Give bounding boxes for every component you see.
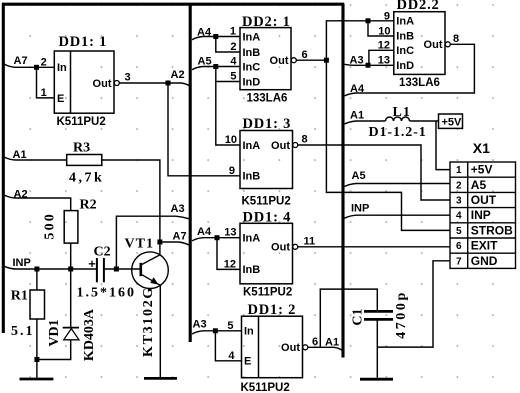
svg-text:DD1: 4: DD1: 4 [243,210,292,226]
svg-text:DD2: 1: DD2: 1 [242,14,291,30]
svg-text:500: 500 [43,212,58,240]
svg-text:InA: InA [243,233,261,245]
svg-text:A4: A4 [350,83,365,95]
svg-text:3: 3 [456,196,462,207]
svg-text:5.1: 5.1 [11,324,35,339]
svg-text:1: 1 [456,165,462,176]
svg-text:InB: InB [396,31,414,43]
svg-text:L1: L1 [393,105,411,120]
svg-text:2: 2 [230,41,236,53]
svg-text:5: 5 [456,226,462,237]
svg-text:10: 10 [378,25,390,37]
svg-text:3: 3 [125,72,131,84]
svg-text:Out: Out [424,39,443,51]
svg-text:InC: InC [243,61,261,73]
svg-text:K511PU2: K511PU2 [57,116,106,128]
svg-text:R1: R1 [11,289,28,304]
svg-text:A2: A2 [171,69,185,81]
svg-text:A2: A2 [14,188,28,200]
svg-text:VT1: VT1 [125,237,154,252]
svg-text:E: E [57,93,64,105]
svg-text:Out: Out [271,140,290,152]
svg-text:A3: A3 [350,55,364,67]
svg-text:C1: C1 [351,308,366,325]
svg-text:12: 12 [378,40,390,52]
svg-text:EXIT: EXIT [471,239,498,253]
svg-text:DD1: 1: DD1: 1 [59,34,108,50]
svg-text:InC: InC [396,45,414,57]
svg-text:A5: A5 [471,178,487,192]
svg-text:InA: InA [243,31,261,43]
svg-text:R3: R3 [73,141,90,156]
svg-text:13: 13 [224,227,236,239]
svg-text:DD1: 2: DD1: 2 [248,302,297,318]
svg-text:INP: INP [13,257,31,269]
svg-text:A1: A1 [350,109,364,121]
svg-text:2: 2 [41,56,47,68]
svg-text:A7: A7 [173,231,187,243]
svg-text:E: E [244,356,251,368]
svg-text:VD1: VD1 [47,319,62,346]
svg-text:A4: A4 [197,27,212,39]
svg-text:9: 9 [384,10,390,22]
svg-text:5: 5 [227,320,233,332]
svg-text:DD1: 3: DD1: 3 [243,116,292,132]
svg-text:InA: InA [243,140,261,152]
svg-text:6: 6 [456,241,462,252]
svg-text:D1-1.2-1: D1-1.2-1 [369,125,427,140]
svg-text:+5V: +5V [442,117,463,129]
svg-text:1: 1 [230,26,236,38]
svg-text:R2: R2 [80,198,97,213]
svg-text:InD: InD [396,60,414,72]
svg-text:K511PU2: K511PU2 [241,382,290,393]
svg-text:A5: A5 [198,55,212,67]
svg-text:11: 11 [304,236,316,248]
svg-text:Out: Out [281,342,300,354]
svg-text:INP: INP [471,208,491,222]
svg-text:In: In [57,62,67,74]
svg-text:A3: A3 [193,318,207,330]
svg-text:X1: X1 [473,140,490,156]
svg-text:5: 5 [230,71,236,83]
svg-text:STROB: STROB [471,223,513,237]
svg-text:K511PU2: K511PU2 [243,287,292,299]
svg-text:INP: INP [351,203,369,215]
svg-text:8: 8 [302,134,308,146]
svg-text:KT3102G: KT3102G [141,286,156,357]
svg-text:133LA6: 133LA6 [399,77,440,89]
svg-text:InA: InA [396,16,414,28]
svg-text:InB: InB [243,171,261,183]
svg-text:A3: A3 [171,203,185,215]
svg-text:KD403A: KD403A [82,308,97,361]
svg-text:133LA6: 133LA6 [247,93,288,105]
svg-text:Out: Out [270,55,289,67]
svg-text:Out: Out [271,242,290,254]
svg-text:GND: GND [471,254,498,268]
svg-text:10: 10 [225,134,237,146]
svg-text:+5V: +5V [471,163,493,177]
svg-text:1: 1 [41,87,47,99]
svg-text:InB: InB [243,47,261,59]
svg-text:8: 8 [453,33,459,45]
svg-text:K511PU2: K511PU2 [242,196,291,208]
svg-text:A1: A1 [325,336,339,348]
svg-text:4700p: 4700p [394,290,409,339]
svg-text:4: 4 [228,350,235,362]
svg-text:12: 12 [224,258,236,270]
svg-text:A7: A7 [14,55,28,67]
svg-text:A4: A4 [197,226,212,238]
svg-text:9: 9 [229,165,235,177]
svg-text:DD2.2: DD2.2 [397,0,440,13]
svg-text:InD: InD [243,76,261,88]
svg-text:A5: A5 [352,170,366,182]
svg-text:4: 4 [230,56,237,68]
svg-text:Out: Out [93,78,112,90]
svg-text:7: 7 [456,256,462,267]
svg-text:C2: C2 [94,245,111,260]
svg-text:2: 2 [456,180,462,191]
svg-text:13: 13 [378,55,390,67]
svg-text:6: 6 [312,336,318,348]
svg-text:OUT: OUT [471,193,497,207]
svg-text:InB: InB [243,264,261,276]
svg-text:1.5*160: 1.5*160 [77,286,137,301]
svg-text:4,7k: 4,7k [69,171,104,186]
svg-text:A1: A1 [13,149,27,161]
svg-text:4: 4 [456,211,462,222]
svg-text:In: In [244,326,254,338]
svg-text:6: 6 [302,49,308,61]
